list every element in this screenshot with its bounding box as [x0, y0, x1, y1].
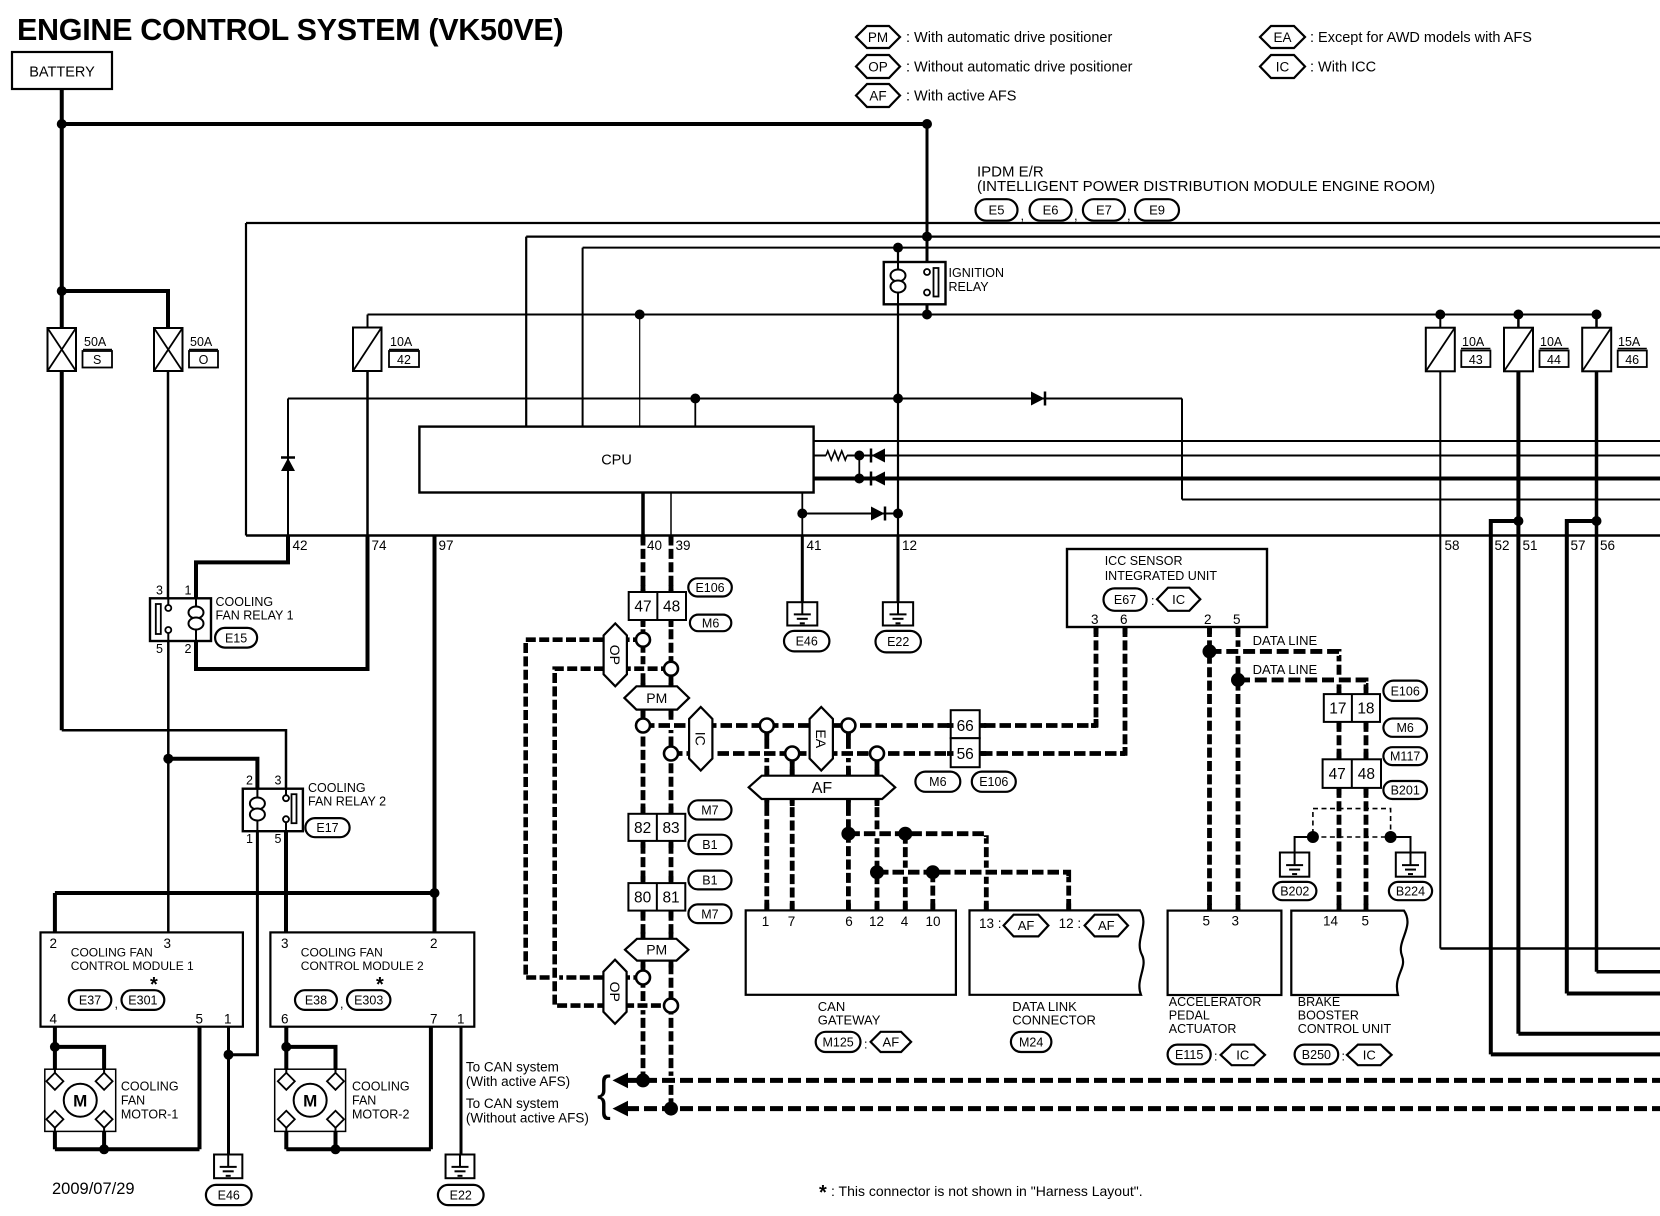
svg-text:13 :: 13 : — [979, 916, 1002, 931]
svg-text:M24: M24 — [1019, 1035, 1043, 1049]
svg-text:OP: OP — [868, 59, 888, 74]
svg-text:S: S — [93, 353, 101, 367]
svg-text:MOTOR-1: MOTOR-1 — [121, 1108, 178, 1122]
svg-text:,: , — [1074, 208, 1078, 223]
svg-text:DATA LINE: DATA LINE — [1253, 662, 1318, 677]
svg-text:: With ICC: : With ICC — [1310, 60, 1376, 76]
svg-text:,: , — [115, 997, 118, 1011]
svg-text:B1: B1 — [702, 838, 717, 852]
svg-text:82: 82 — [634, 820, 651, 837]
svg-text:2: 2 — [430, 936, 438, 951]
svg-text:5: 5 — [1202, 914, 1210, 929]
svg-text:18: 18 — [1357, 701, 1374, 718]
svg-text:COOLING: COOLING — [308, 781, 366, 795]
svg-text:M7: M7 — [701, 803, 718, 817]
svg-text:O: O — [199, 353, 209, 367]
svg-text:81: 81 — [662, 889, 679, 906]
svg-text:12: 12 — [902, 538, 917, 553]
svg-text:58: 58 — [1445, 538, 1460, 553]
svg-text:E115: E115 — [1175, 1048, 1203, 1062]
svg-text:EA: EA — [1273, 30, 1291, 45]
svg-text:: Except for AWD models with A: : Except for AWD models with AFS — [1310, 30, 1532, 46]
svg-text:IC: IC — [1363, 1048, 1376, 1063]
svg-text:ICC SENSOR: ICC SENSOR — [1105, 554, 1183, 568]
svg-text:COOLING: COOLING — [352, 1080, 410, 1094]
svg-text:: With automatic drive positio: : With automatic drive positioner — [906, 30, 1112, 46]
svg-text:51: 51 — [1523, 538, 1538, 553]
svg-text:B224: B224 — [1396, 885, 1425, 899]
svg-text:4: 4 — [901, 914, 909, 929]
svg-text:14: 14 — [1323, 914, 1339, 929]
svg-text:MOTOR-2: MOTOR-2 — [352, 1108, 409, 1122]
svg-text:IC: IC — [1276, 59, 1290, 74]
svg-text:83: 83 — [662, 820, 679, 837]
svg-text:E9: E9 — [1149, 203, 1165, 218]
svg-text:E106: E106 — [695, 581, 724, 595]
svg-text:46: 46 — [1625, 353, 1639, 367]
svg-text:M6: M6 — [1397, 721, 1414, 735]
svg-text:1: 1 — [457, 1012, 465, 1027]
svg-text:AF: AF — [869, 88, 886, 103]
svg-text:74: 74 — [372, 538, 388, 553]
svg-text:COOLING FAN: COOLING FAN — [301, 946, 383, 960]
svg-text:M6: M6 — [929, 775, 946, 789]
svg-text:6: 6 — [845, 914, 853, 929]
svg-text:COOLING: COOLING — [216, 595, 274, 609]
svg-text:44: 44 — [1547, 353, 1561, 367]
svg-text:7: 7 — [788, 914, 796, 929]
svg-text:INTEGRATED UNIT: INTEGRATED UNIT — [1105, 569, 1218, 583]
svg-text:E46: E46 — [218, 1189, 240, 1203]
svg-text:E22: E22 — [887, 635, 909, 649]
svg-text:3: 3 — [1091, 612, 1099, 627]
svg-text::: : — [1342, 1050, 1345, 1064]
svg-text:*: * — [150, 974, 158, 996]
svg-text:52: 52 — [1495, 538, 1510, 553]
svg-text:10A: 10A — [1540, 335, 1563, 349]
svg-text:2: 2 — [185, 642, 192, 656]
svg-text:3: 3 — [163, 936, 171, 951]
svg-text:B202: B202 — [1280, 885, 1309, 899]
svg-text:CONTROL MODULE 1: CONTROL MODULE 1 — [71, 959, 194, 973]
svg-text:5: 5 — [1233, 612, 1241, 627]
svg-text:OP: OP — [607, 645, 623, 665]
svg-text:97: 97 — [439, 538, 454, 553]
svg-text:80: 80 — [634, 889, 652, 906]
svg-text:CONTROL MODULE 2: CONTROL MODULE 2 — [301, 959, 424, 973]
svg-text:E106: E106 — [979, 775, 1008, 789]
svg-text:ENGINE CONTROL SYSTEM (VK50VE): ENGINE CONTROL SYSTEM (VK50VE) — [17, 13, 563, 47]
svg-text:ACTUATOR: ACTUATOR — [1169, 1022, 1237, 1036]
svg-text:AF: AF — [883, 1035, 900, 1050]
svg-text:17: 17 — [1329, 701, 1346, 718]
svg-text:42: 42 — [397, 353, 411, 367]
svg-text:B1: B1 — [702, 874, 717, 888]
svg-text:To CAN system: To CAN system — [466, 1060, 559, 1075]
svg-text:IC: IC — [1236, 1048, 1249, 1063]
svg-text:IGNITION: IGNITION — [949, 266, 1005, 280]
svg-text:FAN RELAY 1: FAN RELAY 1 — [216, 609, 294, 623]
svg-text:56: 56 — [957, 746, 974, 763]
svg-text:E106: E106 — [1391, 684, 1420, 698]
svg-text:PEDAL: PEDAL — [1169, 1009, 1210, 1023]
svg-text:B201: B201 — [1391, 784, 1420, 798]
svg-text:AF: AF — [812, 780, 833, 797]
svg-text:56: 56 — [1600, 538, 1615, 553]
svg-text:B250: B250 — [1302, 1048, 1331, 1062]
svg-text:5: 5 — [156, 642, 163, 656]
svg-text:3: 3 — [156, 584, 163, 598]
svg-text:IC: IC — [693, 732, 709, 746]
svg-text:E5: E5 — [989, 203, 1005, 218]
svg-text:15A: 15A — [1618, 335, 1641, 349]
svg-text:2: 2 — [49, 936, 57, 951]
svg-text:50A: 50A — [84, 335, 107, 349]
svg-text:4: 4 — [49, 1012, 57, 1027]
svg-text:6: 6 — [281, 1012, 289, 1027]
svg-text:47: 47 — [634, 599, 651, 616]
svg-text:PM: PM — [868, 30, 888, 45]
svg-text:,: , — [340, 997, 343, 1011]
svg-text:: This connector is not shown: : This connector is not shown in "Harnes… — [831, 1183, 1143, 1199]
svg-text:3: 3 — [275, 774, 282, 788]
svg-text:10: 10 — [925, 914, 940, 929]
svg-text:E7: E7 — [1096, 203, 1112, 218]
svg-text:AF: AF — [1098, 918, 1115, 933]
svg-text:CONNECTOR: CONNECTOR — [1012, 1013, 1096, 1028]
svg-text:M7: M7 — [701, 907, 718, 921]
svg-text:3: 3 — [281, 936, 289, 951]
svg-text:E46: E46 — [796, 635, 818, 649]
svg-text:M6: M6 — [702, 616, 719, 630]
svg-text:E67: E67 — [1114, 593, 1136, 607]
svg-text:FAN: FAN — [352, 1094, 376, 1108]
svg-text:48: 48 — [1358, 766, 1375, 783]
svg-text:E37: E37 — [79, 994, 101, 1008]
svg-text:E17: E17 — [316, 821, 338, 835]
svg-text:6: 6 — [1120, 612, 1128, 627]
svg-text:1: 1 — [224, 1012, 232, 1027]
svg-text:FAN RELAY 2: FAN RELAY 2 — [308, 795, 386, 809]
svg-text:(With active AFS): (With active AFS) — [466, 1074, 570, 1089]
svg-text:AF: AF — [1018, 918, 1035, 933]
svg-text:{: { — [597, 1066, 611, 1121]
svg-text:E6: E6 — [1043, 203, 1059, 218]
svg-text:To CAN system: To CAN system — [466, 1096, 559, 1111]
svg-text::: : — [1151, 594, 1154, 608]
svg-text:COOLING FAN: COOLING FAN — [71, 946, 153, 960]
svg-text:5: 5 — [275, 832, 282, 846]
svg-text:E22: E22 — [450, 1189, 472, 1203]
svg-text:M: M — [303, 1091, 317, 1110]
svg-text:GATEWAY: GATEWAY — [818, 1013, 881, 1028]
svg-text:48: 48 — [663, 599, 680, 616]
svg-text:FAN: FAN — [121, 1094, 145, 1108]
svg-text::: : — [1214, 1050, 1217, 1064]
svg-text:BRAKE: BRAKE — [1298, 995, 1340, 1009]
svg-text:PM: PM — [646, 942, 667, 958]
svg-text:M125: M125 — [822, 1035, 853, 1049]
svg-text:41: 41 — [807, 538, 822, 553]
svg-text:,: , — [1127, 208, 1131, 223]
svg-text:DATA LINE: DATA LINE — [1253, 633, 1318, 648]
svg-text:(Without active AFS): (Without active AFS) — [466, 1111, 589, 1126]
svg-text:3: 3 — [1231, 914, 1239, 929]
svg-text:IC: IC — [1172, 592, 1185, 607]
svg-text:PM: PM — [646, 690, 667, 706]
svg-text:BOOSTER: BOOSTER — [1298, 1009, 1359, 1023]
svg-text:5: 5 — [1361, 914, 1369, 929]
svg-text:E15: E15 — [225, 631, 247, 645]
svg-text:43: 43 — [1469, 353, 1483, 367]
svg-text:COOLING: COOLING — [121, 1080, 179, 1094]
svg-text:CONTROL UNIT: CONTROL UNIT — [1298, 1022, 1392, 1036]
svg-text:40: 40 — [647, 538, 662, 553]
svg-text:BATTERY: BATTERY — [29, 65, 95, 81]
svg-text:E38: E38 — [305, 994, 327, 1008]
svg-text:50A: 50A — [190, 335, 213, 349]
svg-text:7: 7 — [430, 1012, 438, 1027]
svg-text:(INTELLIGENT POWER DISTRIBUTIO: (INTELLIGENT POWER DISTRIBUTION MODULE E… — [977, 178, 1435, 195]
svg-text:M117: M117 — [1390, 750, 1420, 764]
svg-text:*: * — [376, 974, 384, 996]
svg-text:12 :: 12 : — [1059, 916, 1082, 931]
svg-text:42: 42 — [293, 538, 308, 553]
svg-text:: Without automatic drive posi: : Without automatic drive positioner — [906, 60, 1133, 76]
svg-text:: With active AFS: : With active AFS — [906, 89, 1016, 105]
svg-text:M: M — [73, 1091, 87, 1110]
svg-text:10A: 10A — [390, 335, 413, 349]
svg-text::: : — [864, 1038, 867, 1052]
svg-text:1: 1 — [185, 584, 192, 598]
svg-text:2: 2 — [246, 774, 253, 788]
svg-text:1: 1 — [762, 914, 770, 929]
svg-text:66: 66 — [957, 718, 974, 735]
svg-text:CPU: CPU — [601, 453, 632, 469]
svg-text:2: 2 — [1204, 612, 1212, 627]
svg-text:57: 57 — [1571, 538, 1586, 553]
svg-text:RELAY: RELAY — [949, 280, 990, 294]
svg-text:12: 12 — [869, 914, 884, 929]
svg-text:EA: EA — [813, 729, 829, 748]
svg-text:ACCELERATOR: ACCELERATOR — [1169, 995, 1262, 1009]
svg-text:10A: 10A — [1462, 335, 1485, 349]
svg-text:47: 47 — [1329, 766, 1346, 783]
svg-text:,: , — [1021, 208, 1025, 223]
svg-text:OP: OP — [607, 982, 623, 1002]
svg-text:5: 5 — [195, 1012, 203, 1027]
svg-text:*: * — [819, 1182, 827, 1204]
svg-text:2009/07/29: 2009/07/29 — [52, 1180, 135, 1198]
svg-text:1: 1 — [246, 832, 253, 846]
svg-text:39: 39 — [676, 538, 691, 553]
